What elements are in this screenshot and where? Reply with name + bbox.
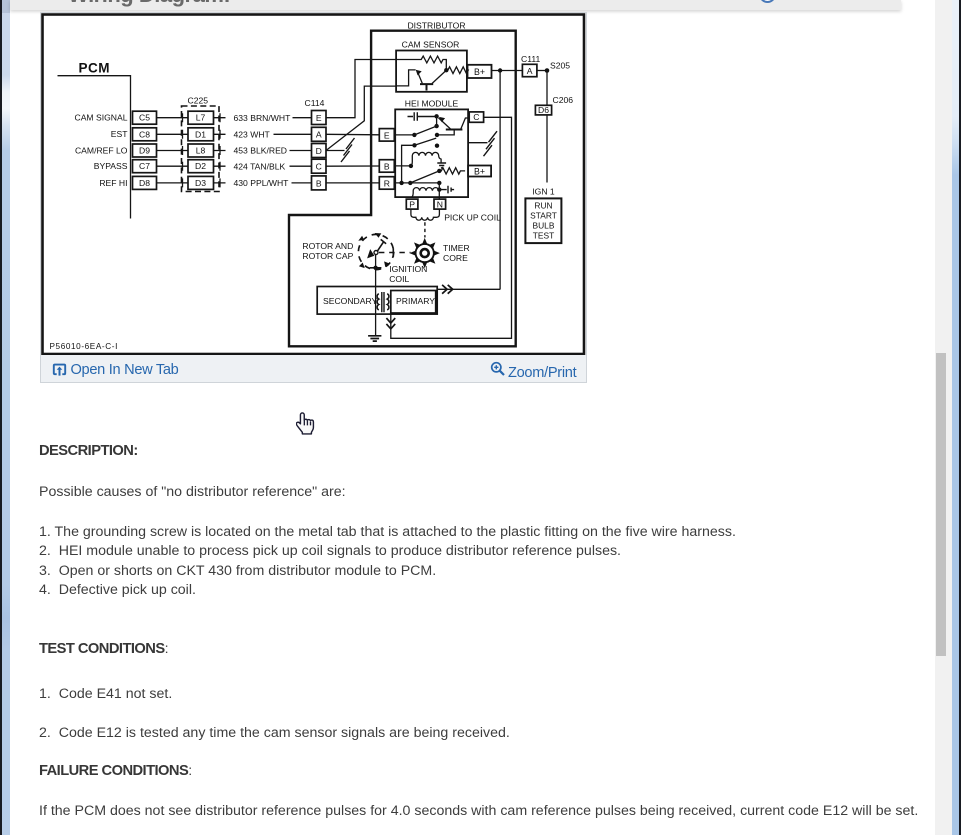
wire C111 to S205 (536, 70, 547, 72)
svg-text:S205: S205 (550, 61, 570, 71)
svg-text:BULB: BULB (532, 221, 554, 231)
wire primary to B+ line (437, 288, 500, 290)
wire 633 to C114 E (292, 117, 311, 119)
terminal R (379, 177, 394, 190)
svg-text:D3: D3 (195, 178, 206, 188)
wire label 423 WHT (233, 130, 270, 140)
junction dot cam sensor (444, 68, 448, 72)
fuse RUN START BULB TEST (525, 198, 561, 243)
svg-text:SECONDARY: SECONDARY (323, 296, 378, 306)
pin ticks row4 (182, 162, 225, 171)
connector pin C111 A (522, 64, 537, 76)
resistor R2 in cam sensor (446, 67, 468, 74)
label C206 (552, 95, 573, 105)
connector pin D2 (188, 160, 214, 173)
wire C114 C to HEI B (326, 165, 379, 167)
connector pin C5 (132, 111, 156, 124)
right scrollbar track (935, 0, 952, 835)
svg-text:HEI MODULE: HEI MODULE (404, 99, 458, 109)
pin ticks row2 (182, 130, 225, 139)
timer core gear (409, 238, 439, 268)
right black window edge (959, 0, 961, 835)
earth ground below coil (368, 336, 381, 341)
connector pin D9 (132, 144, 156, 157)
svg-text:C225: C225 (187, 95, 208, 105)
chassis ground near C114 D (341, 138, 355, 162)
svg-text:B: B (315, 178, 321, 188)
svg-text:RUN: RUN (534, 201, 552, 211)
PCM outline (57, 76, 130, 219)
transistor Q2 in HEI (434, 114, 468, 129)
svg-text:453 BLK/RED: 453 BLK/RED (233, 146, 287, 156)
earth ground in HEI (437, 163, 446, 168)
dashed link to timer core (423, 222, 425, 237)
pin label BYPASS (93, 161, 127, 171)
wire D6 to IGN 1 (546, 115, 548, 183)
wire B+ down to coil (499, 71, 501, 290)
label IGN 1 (532, 187, 555, 197)
ignition coil secondary box (317, 287, 437, 315)
ignition coil primary box (390, 291, 435, 314)
svg-text:B+: B+ (473, 67, 484, 77)
coil L1 in HEI (410, 152, 440, 165)
wire rotor to ground (374, 255, 376, 336)
HEI module box (395, 109, 468, 197)
svg-text:C8: C8 (139, 129, 150, 139)
figure container (40, 12, 587, 383)
connector pin D8 (132, 176, 156, 189)
svg-text:PICK UP COIL: PICK UP COIL (444, 213, 501, 223)
connector pin C114 C (311, 159, 326, 173)
wire C8 to D1 (156, 133, 187, 135)
svg-text:L8: L8 (195, 146, 205, 156)
svg-text:DISTRIBUTOR: DISTRIBUTOR (407, 21, 465, 31)
pick up coil winding (410, 209, 439, 220)
wire E row inside HEI (394, 133, 416, 137)
svg-text:EST: EST (110, 129, 127, 139)
label DISTRIBUTOR (407, 21, 465, 31)
scrollbar thumb (936, 353, 946, 656)
connector pin C114 E (311, 111, 326, 125)
connector pin C114 D (311, 144, 326, 158)
label C114 (304, 98, 324, 108)
svg-text:PRIMARY: PRIMARY (396, 296, 435, 306)
wire C114 E to cam sensor (326, 60, 396, 118)
junction dot B+ branch (497, 68, 501, 72)
svg-text:633 BRN/WHT: 633 BRN/WHT (233, 113, 291, 123)
pin label CAM SIGNAL (74, 113, 127, 123)
svg-text:430 PPL/WHT: 430 PPL/WHT (233, 178, 289, 188)
wire 430 to C114 B (291, 182, 311, 184)
svg-text:N: N (436, 199, 442, 209)
wire B row inside HEI (394, 164, 413, 168)
svg-text:P56010-6EA-C-I: P56010-6EA-C-I (49, 342, 117, 351)
blue circle icon cut off at top (759, 0, 776, 3)
svg-text:BYPASS: BYPASS (93, 161, 127, 171)
svg-text:R: R (383, 178, 389, 188)
svg-text:C206: C206 (552, 95, 573, 105)
heading text cut off at top (68, 0, 230, 8)
svg-text:TIMER: TIMER (443, 243, 470, 253)
label PRIMARY (396, 296, 435, 306)
terminal B+ cam sensor (467, 65, 491, 78)
left black window edge (0, 0, 2, 835)
capacitor C2 in HEI (439, 186, 454, 194)
wire 423 to C114 A (273, 133, 311, 135)
svg-text:B: B (383, 161, 389, 171)
svg-text:C114: C114 (304, 98, 324, 108)
connector pin L8 (188, 144, 214, 157)
svg-text:TEST: TEST (532, 231, 553, 241)
pin label EST (110, 129, 127, 139)
svg-text:CAM/REF LO: CAM/REF LO (74, 146, 127, 156)
label ROTOR AND ROTOR CAP (302, 241, 353, 261)
wire C5 to L7 (156, 117, 187, 119)
right blue strip (952, 0, 959, 835)
svg-text:D8: D8 (139, 178, 150, 188)
svg-text:COIL: COIL (389, 274, 409, 284)
label PICK UP COIL (444, 213, 501, 223)
svg-text:D9: D9 (139, 146, 150, 156)
svg-text:START: START (530, 211, 557, 221)
rotor dashed circle (358, 233, 393, 270)
zoom/print icon (490, 361, 506, 377)
transformer T1 windings (377, 292, 389, 312)
terminal B (379, 160, 394, 173)
connector pin D3 (188, 176, 214, 189)
wire D8 to D3 (156, 182, 187, 184)
figure number (49, 342, 117, 351)
wire 424 to C114 C (289, 165, 311, 167)
connector pin D1 (188, 128, 214, 141)
coil L2 in HEI (412, 183, 441, 199)
label C111 (521, 54, 540, 64)
pin ticks row3 (182, 146, 225, 155)
svg-text:E: E (315, 113, 321, 123)
connector pin C114 B (311, 176, 326, 190)
left blue strip (2, 0, 10, 835)
label CAM SENSOR (401, 39, 459, 49)
svg-text:C: C (473, 112, 479, 122)
connector pin C7 (132, 160, 156, 173)
chassis ground right of HEI (468, 131, 497, 156)
PCM label (78, 61, 110, 76)
top gray bar (10, 0, 902, 10)
label TIMER CORE (443, 243, 470, 263)
resistor R1 in cam sensor (396, 56, 446, 68)
terminal B+ HEI (468, 166, 491, 177)
distributor housing box (289, 31, 516, 347)
svg-text:PCM: PCM (78, 61, 110, 76)
wire label 633 BRN/WHT (233, 113, 291, 123)
mouse cursor (296, 412, 316, 436)
svg-text:ROTOR AND: ROTOR AND (302, 241, 353, 251)
open-in-new-tab icon (52, 362, 67, 377)
svg-text:C: C (315, 162, 321, 172)
switch arm S1 (414, 126, 436, 135)
label C225 (187, 95, 208, 105)
transistor Q1 in cam sensor (396, 70, 445, 91)
svg-text:ROTOR CAP: ROTOR CAP (302, 251, 353, 261)
rotor rotation arrow (367, 249, 374, 258)
connector pin C8 (132, 128, 156, 141)
dashed wire rotor to timer (379, 248, 411, 257)
svg-text:L7: L7 (195, 113, 205, 123)
body text (39, 0, 914, 1)
connector pin D6 (535, 105, 551, 115)
wire 453 to C114 D (289, 150, 311, 152)
arrows on primary return (386, 318, 395, 329)
svg-text:CORE: CORE (443, 253, 468, 263)
label IGNITION COIL (389, 264, 427, 284)
splice S205 (544, 61, 570, 73)
switch arm S2 (401, 138, 439, 183)
svg-text:A: A (526, 66, 532, 76)
wire label 430 PPL/WHT (233, 178, 289, 188)
svg-text:423 WHT: 423 WHT (233, 130, 270, 140)
connector pin L7 (188, 111, 214, 124)
terminal N (434, 199, 446, 209)
resistor R3 in HEI (437, 168, 465, 174)
svg-text:D: D (315, 146, 321, 156)
wire label 453 BLK/RED (233, 146, 287, 156)
svg-text:REF HI: REF HI (99, 178, 127, 188)
wire C114 B to HEI R (326, 182, 379, 184)
wire primary to HEI C (390, 117, 511, 338)
svg-text:CAM SENSOR: CAM SENSOR (401, 39, 459, 49)
links bar (41, 355, 586, 382)
arrows on primary feed (442, 285, 453, 294)
svg-text:A: A (315, 130, 321, 140)
wire C114 D to ground (326, 150, 345, 152)
cam sensor box (396, 51, 467, 92)
svg-text:CAM SIGNAL: CAM SIGNAL (74, 113, 127, 123)
svg-text:IGNITION: IGNITION (389, 264, 427, 274)
terminal E (379, 129, 394, 142)
terminal P (406, 199, 418, 209)
svg-text:C111: C111 (521, 54, 540, 64)
connector C225 dashed outline (181, 106, 219, 192)
svg-text:D6: D6 (538, 105, 549, 115)
svg-text:P: P (409, 199, 415, 209)
diagram image border (42, 15, 584, 355)
wire base to contact (434, 130, 453, 138)
wire R row inside HEI (394, 181, 441, 185)
wire D9 to L8 (156, 150, 187, 152)
svg-text:D2: D2 (195, 161, 206, 171)
label HEI MODULE (404, 99, 458, 109)
svg-text:C5: C5 (139, 113, 150, 123)
svg-text:E: E (383, 130, 389, 140)
wire B+ to C111 (491, 70, 522, 72)
wire S205 to D6 (546, 71, 548, 106)
wire C7 to D2 (156, 165, 187, 167)
pin ticks row1 (182, 113, 225, 122)
wire label 424 TAN/BLK (233, 161, 285, 171)
rotor cap contact tick (369, 266, 381, 270)
wire C114 D to cam sensor (326, 86, 396, 150)
svg-text:B+: B+ (473, 166, 484, 176)
svg-text:D1: D1 (195, 129, 206, 139)
wire C114 A to HEI E (326, 133, 379, 136)
svg-text:424 TAN/BLK: 424 TAN/BLK (233, 161, 285, 171)
switch arm S3 (408, 171, 439, 185)
capacitor C1 in HEI (407, 112, 436, 120)
pin label REF HI (99, 178, 127, 188)
svg-text:C7: C7 (139, 161, 150, 171)
terminal C (469, 112, 483, 122)
pin label CAM/REF LO (74, 146, 127, 156)
label SECONDARY (323, 296, 378, 306)
svg-text:IGN 1: IGN 1 (532, 187, 555, 197)
rotor arm (374, 239, 386, 254)
connector pin C114 A (311, 127, 326, 141)
pin ticks row5 (182, 178, 225, 187)
